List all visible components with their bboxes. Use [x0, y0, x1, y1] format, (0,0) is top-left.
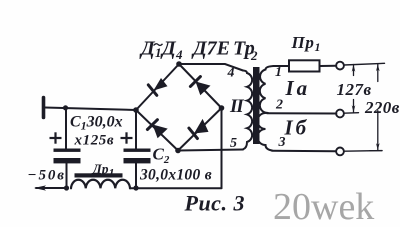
terminal circle 3	[336, 148, 344, 156]
bridge side bottom-right	[178, 108, 222, 151]
fuse Pr1	[289, 60, 320, 71]
transformer core	[253, 67, 260, 144]
svg-text:30,0х100 в: 30,0х100 в	[139, 167, 212, 184]
node bridge right vertex	[219, 105, 225, 111]
node bridge top vertex	[176, 61, 182, 67]
svg-text:5: 5	[230, 136, 237, 151]
svg-text:1: 1	[275, 65, 282, 80]
bridge side top-right	[179, 64, 222, 108]
svg-text:4: 4	[227, 66, 235, 81]
node bridge bottom vertex	[175, 148, 181, 154]
plus C1	[50, 132, 62, 143]
wire stub middle row	[344, 112, 359, 115]
wire extension bottom row	[345, 150, 383, 153]
node C1-bottom junction	[64, 185, 69, 190]
wire bottom-left output	[36, 187, 67, 189]
transformer Tr2 right winding Ib	[258, 113, 273, 151]
wire top-left	[45, 108, 136, 111]
plus C2	[121, 132, 133, 143]
fuse Pr1 wire left	[274, 65, 289, 67]
transformer Tr2 left winding II	[243, 71, 252, 150]
wire top vertex to winding 4	[179, 64, 243, 71]
bridge side top-left	[136, 64, 179, 110]
terminal circle 2	[336, 110, 344, 118]
fuse Pr1 wire right	[321, 65, 337, 67]
svg-text:х125в: х125в	[74, 133, 115, 149]
wire terminal 3 row	[272, 150, 336, 153]
node bridge left vertex	[133, 107, 139, 113]
node C1-top junction	[63, 105, 68, 110]
svg-text:Іб: Іб	[284, 116, 310, 140]
bridge side bottom-left	[136, 110, 178, 151]
wire bottom vertex to winding 5	[178, 150, 243, 151]
wire extension top row	[344, 63, 385, 65]
wire rail to C2	[130, 187, 222, 189]
svg-text:Рис. 3: Рис. 3	[184, 191, 245, 216]
diode D4 (bottom-right arm)	[189, 119, 209, 139]
inductor Dr1 coil	[71, 180, 130, 189]
wire tap 2	[267, 112, 336, 114]
dimension 127v upper arrow	[352, 65, 356, 113]
capacitor C1	[54, 108, 81, 188]
svg-text:Іа: Іа	[285, 76, 311, 100]
transformer Tr2 right winding Ia	[260, 66, 274, 113]
arrow -50v output	[34, 185, 46, 190]
svg-text:II: II	[229, 96, 244, 117]
svg-text:Д1Д4Д7ЕТр2: Д1Д4Д7ЕТр2	[139, 38, 258, 64]
node C2-bottom junction	[133, 185, 138, 190]
inductor Dr1 core bar	[75, 173, 123, 177]
diode D3 (bottom-left arm)	[147, 120, 167, 139]
svg-text:127в: 127в	[337, 80, 372, 99]
diode D2 (top-right arm)	[190, 77, 210, 96]
capacitor C2	[124, 110, 151, 188]
diode D1 (top-left arm)	[148, 78, 167, 95]
svg-text:20wek: 20wek	[273, 186, 374, 227]
terminal circle 1	[336, 62, 344, 70]
wire right vertex down	[221, 108, 223, 188]
terminal (chassis bar)	[42, 98, 46, 118]
svg-text:Пр1: Пр1	[291, 33, 322, 54]
dimension 220v line	[370, 64, 382, 151]
svg-text:2: 2	[275, 98, 283, 113]
svg-text:С130,0х: С130,0х	[70, 114, 123, 133]
svg-text:С2: С2	[153, 145, 170, 167]
svg-text:220в: 220в	[364, 98, 400, 117]
svg-text:−50в: −50в	[28, 168, 66, 184]
